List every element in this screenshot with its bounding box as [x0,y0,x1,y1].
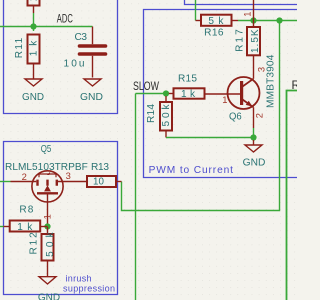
svg-text:10u: 10u [64,59,85,70]
svg-text:C3: C3 [75,32,88,43]
svg-text:GND: GND [80,92,103,103]
svg-text:GND: GND [22,92,44,103]
svg-text:GND: GND [243,157,266,168]
svg-text:3: 3 [66,170,71,181]
svg-text:PWM to Current: PWM to Current [149,165,234,176]
svg-text:R15: R15 [178,74,197,85]
wire R8 left pin from edge [0,226,4,228]
resistor R14 [160,96,172,131]
wire pin from above component [253,0,255,27]
resistor R11 [28,35,40,64]
wire R14 bottom pin [165,131,167,138]
svg-text:R: R [292,79,298,92]
ground under R12 [39,277,56,284]
ground under R11 [25,79,42,86]
node SLOW junction [163,90,169,96]
box inrush suppression section [4,142,118,295]
wire from top resistor to ADC node [33,13,35,31]
resistor R17 [247,27,260,55]
svg-text:GND: GND [38,292,60,300]
wire Q6 emitter down [253,128,255,138]
wire into R16 from top [195,0,197,21]
wire SLOW to junction [136,93,166,95]
wire R14 to Q6 emitter node [166,137,254,139]
wire R17 bottom to Q6 collector [253,55,255,78]
svg-text:2: 2 [254,113,265,118]
svg-text:R12: R12 [28,232,39,255]
box ADC section [4,0,118,114]
node gate junction [44,223,50,229]
svg-text:R14: R14 [146,104,157,123]
svg-text:Q6: Q6 [229,112,242,123]
wire Q5 left pin from edge [0,181,11,183]
transistor Q6 [205,77,260,128]
svg-text:Q5: Q5 [41,144,52,155]
ground under Q6 [245,140,262,152]
svg-text:1k: 1k [28,0,39,1]
svg-text:R13: R13 [91,162,109,173]
svg-text:R16: R16 [204,27,224,38]
wire R13 right lead [116,181,122,183]
svg-text:2: 2 [22,171,27,182]
svg-text:ADC: ADC [57,12,73,26]
resistor R8 [4,221,48,232]
wire ADC net horizontal [0,26,93,28]
resistor top partial body [28,0,40,6]
wire R11 bottom pin [33,64,35,80]
svg-text:MMBT3904: MMBT3904 [266,54,277,108]
svg-text:10: 10 [93,176,104,187]
resistor R12 [42,227,54,261]
resistor R13 [87,176,116,187]
svg-text:50k: 50k [45,231,56,257]
label inrush suppression [63,274,115,294]
svg-text:R17: R17 [234,29,245,52]
svg-text:1: 1 [222,94,227,105]
svg-text:suppression: suppression [63,284,115,294]
wire R12 bottom pin [47,261,49,277]
wire right vertical and bottom return [122,21,280,211]
transistor Q5 MOSFET [32,171,63,202]
svg-text:50k: 50k [161,103,172,126]
wire top resistor lower pin [33,6,35,14]
ground under C3 [84,79,101,86]
node junction at R17 top [250,17,256,23]
box PWM to Current section [144,10,299,178]
resistor R15 [169,88,205,98]
wire Q5 pin 3 lead to R13 [58,181,87,183]
svg-text:R8: R8 [19,205,33,216]
wire sheet corner right [287,91,298,300]
svg-text:1: 1 [241,12,252,17]
resistor R16 [196,15,239,26]
svg-text:1: 1 [42,214,53,219]
svg-text:inrush: inrush [66,274,92,284]
svg-text:SLOW: SLOW [133,80,159,93]
wire R16 to right edge [238,20,297,22]
node emitter junction [250,134,256,140]
node ADC junction [30,23,36,29]
capacitor C3 [80,27,106,78]
wire SLOW vertical down [135,94,137,300]
wire Q5 gate pin down [47,202,49,225]
svg-text:R11: R11 [14,37,25,58]
svg-text:1.5K: 1.5K [250,29,261,53]
wire Q5 pin 2 lead [11,181,37,183]
node junction right branch [276,17,282,23]
box upper-right partial [185,0,299,5]
